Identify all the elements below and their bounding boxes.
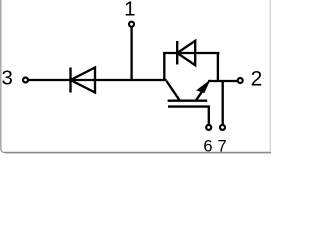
wire: emitter line to terminal 2 <box>208 80 238 82</box>
terminal 1 circle <box>129 22 134 27</box>
IGBT Q1 gate bar and drop to terminal 6 <box>168 107 209 125</box>
terminal 3 circle <box>23 78 28 83</box>
IGBT Q1 channel bar <box>168 100 208 102</box>
IGBT Q1 collector diagonal <box>166 81 179 101</box>
wire: FWD loop top rail <box>163 52 219 54</box>
svg-text:3: 3 <box>1 67 12 90</box>
wire: terminal 1 down to collector node <box>130 27 132 80</box>
diode D1 cathode bar <box>176 41 178 65</box>
svg-text:2: 2 <box>251 67 263 90</box>
terminal 6 circle <box>206 125 211 130</box>
svg-text:6: 6 <box>203 138 212 156</box>
wire: terminal 3 to collector node <box>28 79 166 81</box>
IGBT Q1 emitter arrowhead <box>196 79 211 93</box>
diode D3 triangle <box>71 68 96 93</box>
diode D3 cathode bar <box>69 68 71 93</box>
svg-text:7: 7 <box>218 138 227 156</box>
IGBT Q1 emitter diagonal <box>196 91 203 101</box>
wire: emitter line down to terminal 7 <box>222 81 224 125</box>
diode D1 triangle <box>177 41 195 65</box>
svg-text:1: 1 <box>124 0 135 21</box>
wire: collector node up (left side of FWD loop) <box>163 52 165 81</box>
wire: right side of FWD loop down to emitter line <box>217 52 219 81</box>
terminal 7 circle <box>220 125 225 130</box>
terminal 2 circle <box>238 78 243 83</box>
